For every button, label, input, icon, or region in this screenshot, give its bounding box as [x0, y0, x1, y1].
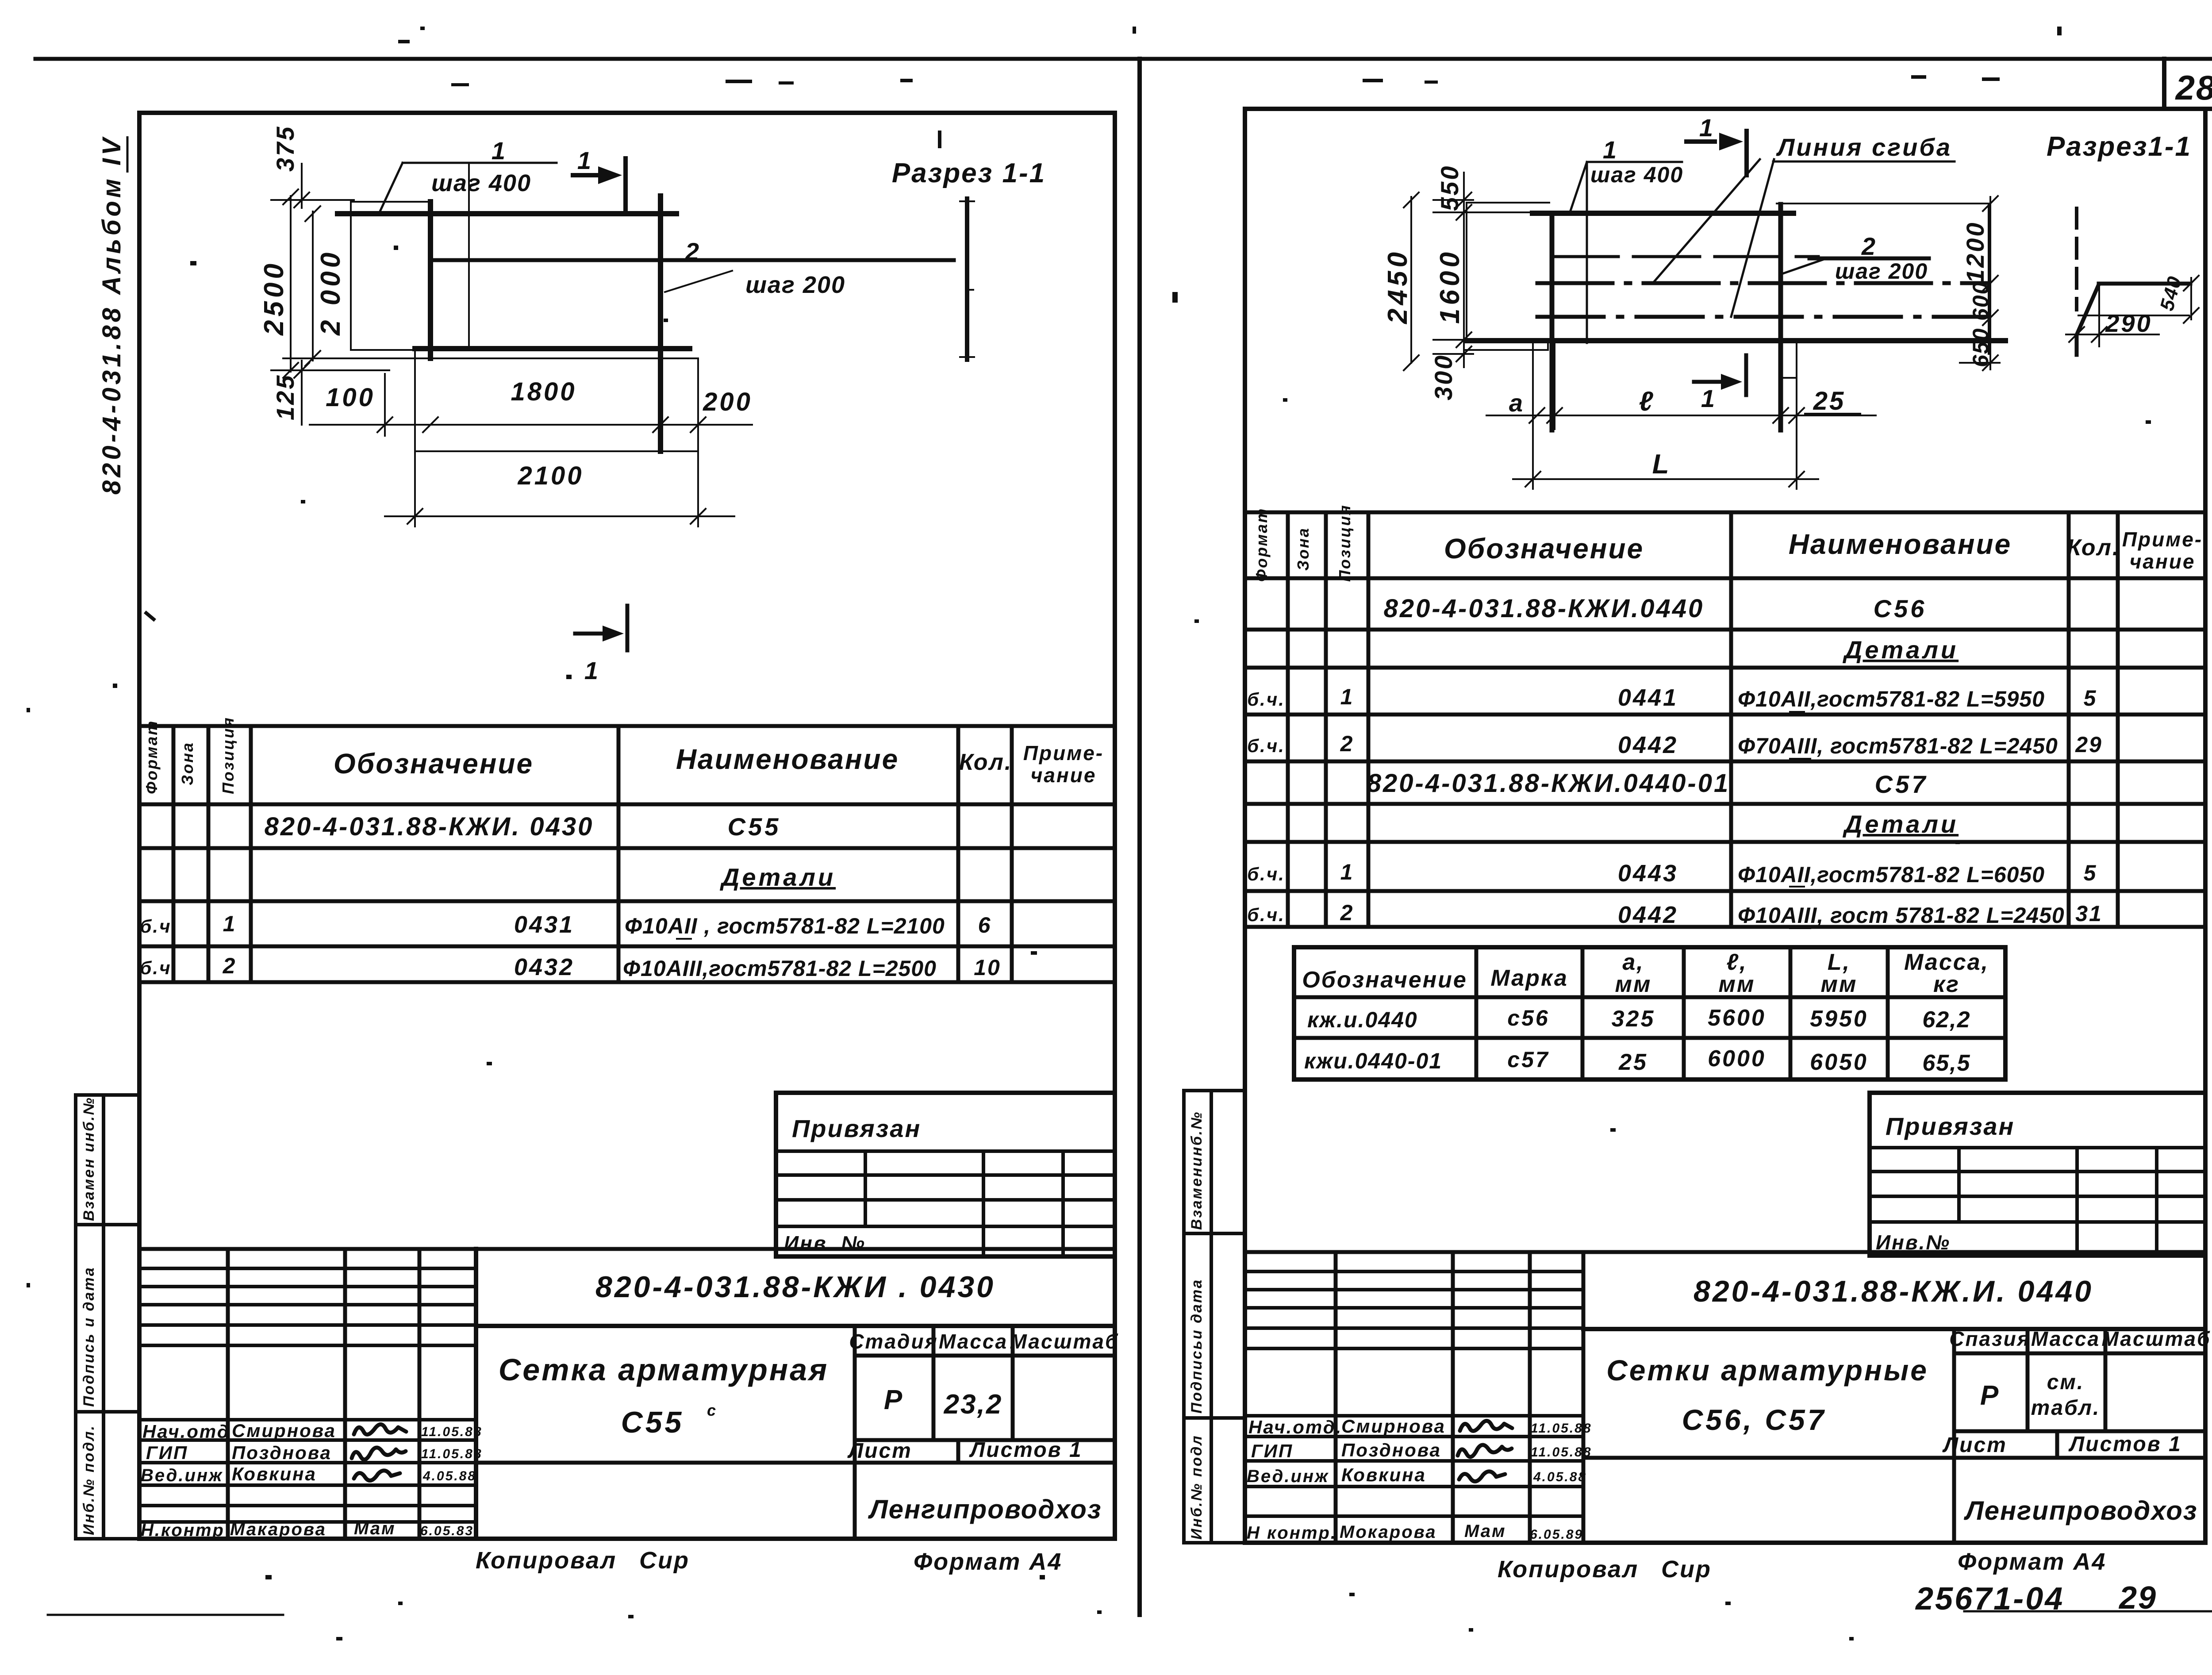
svg-text:0442: 0442 — [1618, 902, 1678, 928]
svg-text:Формат А4: Формат А4 — [1958, 1548, 2106, 1575]
svg-text:4.05.88: 4.05.88 — [422, 1469, 476, 1483]
dashed row line / fraction line of label 2 — [1552, 255, 1818, 258]
svg-text:1: 1 — [492, 137, 507, 165]
svg-text:2500: 2500 — [259, 260, 289, 336]
svg-text:290: 290 — [2105, 309, 2152, 337]
svg-text:с57: с57 — [1507, 1047, 1549, 1072]
svg-text:Мокарова: Мокарова — [1340, 1522, 1437, 1542]
svg-text:Привязан: Привязан — [792, 1114, 921, 1142]
svg-text:Ф10АII,гост5781-82 L=5950: Ф10АII,гост5781-82 L=5950 — [1738, 687, 2045, 711]
svg-text:шаг 400: шаг 400 — [431, 170, 531, 196]
right dim line 1200/600/650 — [1960, 197, 2000, 369]
svg-text:0441: 0441 — [1618, 684, 1678, 711]
svg-text:С57: С57 — [1875, 770, 1928, 798]
svg-text:820-4-031.88-КЖ.И. 0440: 820-4-031.88-КЖ.И. 0440 — [1694, 1275, 2093, 1308]
svg-text:Вед.инж: Вед.инж — [141, 1466, 223, 1485]
svg-text:С55: С55 — [621, 1406, 684, 1439]
svg-text:6.05.89: 6.05.89 — [1530, 1527, 1583, 1542]
LEFT SHEET frame — [139, 113, 1115, 1539]
svg-text:С55: С55 — [728, 813, 781, 841]
leader vertical for label 1 — [468, 163, 470, 349]
svg-text:820-4-031.88-КЖИ.0440: 820-4-031.88-КЖИ.0440 — [1384, 594, 1705, 623]
label 2 diagonal — [665, 271, 732, 292]
svg-text:11.05.88: 11.05.88 — [421, 1425, 483, 1439]
svg-text:Ф10АII , гост5781-82 L=2100: Ф10АII , гост5781-82 L=2100 — [625, 914, 945, 938]
svg-text:Взамен инб.№: Взамен инб.№ — [81, 1096, 97, 1221]
name/stadia dividers — [476, 1326, 1115, 1539]
svg-text:Смирнова: Смирнова — [1341, 1416, 1446, 1437]
svg-text:Детали: Детали — [1843, 810, 1959, 838]
svg-text:1200: 1200 — [1961, 221, 1989, 283]
svg-text:1600: 1600 — [1435, 249, 1465, 324]
svg-text:Приме-: Приме- — [2122, 528, 2203, 551]
svg-text:2: 2 — [1861, 232, 1877, 260]
svg-text:100: 100 — [326, 383, 375, 412]
svg-text:Подпись и дата: Подпись и дата — [81, 1266, 97, 1407]
svg-text:1: 1 — [1603, 136, 1618, 164]
bottom dim extension verticals — [385, 374, 698, 526]
svg-text:С56, С57: С56, С57 — [1682, 1403, 1827, 1436]
svg-text:Позднова: Позднова — [1341, 1440, 1441, 1460]
svg-text:Нач.отд.: Нач.отд. — [1248, 1417, 1342, 1437]
svg-text:б.ч.: б.ч. — [1247, 904, 1285, 925]
svg-text:1: 1 — [1699, 114, 1714, 142]
title block outer — [139, 1249, 1115, 1539]
svg-text:11.05.88: 11.05.88 — [1531, 1445, 1592, 1460]
svg-text:б.ч: б.ч — [140, 957, 171, 978]
spec table grid — [139, 726, 1115, 982]
dim line 2500 — [283, 189, 298, 378]
fold line leaders — [1653, 159, 1774, 317]
svg-text:4.05.88: 4.05.88 — [1533, 1470, 1587, 1484]
privyazan box — [776, 1093, 1115, 1256]
svg-text:б.ч.: б.ч. — [1247, 864, 1285, 884]
right sheet side label boxes — [1184, 1091, 1245, 1543]
svg-text:Обозначение: Обозначение — [334, 748, 534, 780]
svg-text:Ленгипроводхоз: Ленгипроводхоз — [1963, 1496, 2197, 1525]
svg-text:300: 300 — [1429, 354, 1457, 400]
svg-text:б.ч: б.ч — [140, 916, 171, 937]
svg-text:Копировал: Копировал — [1498, 1556, 1639, 1583]
svg-text:1800: 1800 — [511, 377, 576, 406]
label 1 (shag 400) leader and overline — [1570, 162, 1682, 343]
dim line 2100 — [385, 515, 734, 517]
mesh C55 outline upper-left (thin) — [351, 202, 430, 451]
svg-text:11.05.88: 11.05.88 — [421, 1447, 483, 1461]
svg-text:Лист: Лист — [847, 1439, 912, 1463]
svg-text:Ф10АIII,гост5781-82 L=2500: Ф10АIII,гост5781-82 L=2500 — [623, 956, 937, 981]
svg-text:Марка: Марка — [1490, 965, 1568, 991]
svg-text:Ленгипроводхоз: Ленгипроводхоз — [868, 1494, 1102, 1524]
svg-text:600: 600 — [1968, 281, 1993, 321]
svg-text:Позднова: Позднова — [232, 1442, 332, 1463]
svg-text:Сетки арматурные: Сетки арматурные — [1606, 1354, 1928, 1387]
svg-text:Позиция: Позиция — [1336, 504, 1354, 582]
svg-text:мм: мм — [1821, 972, 1858, 997]
svg-text:ГИП: ГИП — [1251, 1441, 1293, 1461]
svg-text:Р: Р — [1980, 1380, 2000, 1411]
svg-text:Смирнова: Смирнова — [232, 1420, 336, 1441]
svg-text:с56: с56 — [1507, 1006, 1549, 1030]
svg-text:1: 1 — [1701, 384, 1716, 412]
svg-text:0443: 0443 — [1618, 860, 1678, 887]
svg-text:1: 1 — [1340, 860, 1354, 884]
svg-text:ℓ: ℓ — [1639, 386, 1655, 417]
label 1 underline and diagonal — [379, 163, 557, 214]
svg-text:Линия сгиба: Линия сгиба — [1776, 133, 1952, 161]
svg-text:200: 200 — [703, 388, 753, 416]
svg-text:25671-04: 25671-04 — [1915, 1581, 2064, 1617]
svg-text:кж.и.0440: кж.и.0440 — [1307, 1007, 1418, 1032]
svg-text:125: 125 — [271, 374, 299, 420]
dim 25 underline — [1805, 413, 1860, 415]
svg-text:б.ч.: б.ч. — [1247, 689, 1285, 710]
svg-text:Лист: Лист — [1942, 1433, 2007, 1457]
section mark bottom (1) — [575, 606, 627, 650]
svg-text:ГИП: ГИП — [146, 1442, 188, 1463]
svg-text:Кол.: Кол. — [959, 749, 1013, 775]
svg-text:Формат: Формат — [1252, 507, 1271, 582]
bottom-left margin line — [48, 1614, 283, 1616]
bar pos2 last (thick vertical) — [1778, 204, 1783, 430]
right step outline — [1782, 339, 1797, 378]
svg-text:Детали: Детали — [1843, 636, 1959, 664]
roman numeral underlines — [676, 712, 1811, 981]
fold line 1 (dash-dot) — [1537, 281, 1989, 285]
svg-text:Спазия: Спазия — [1949, 1327, 2031, 1350]
svg-text:6: 6 — [978, 913, 992, 937]
svg-text:1: 1 — [223, 911, 237, 936]
svg-text:6.05.83: 6.05.83 — [420, 1524, 474, 1538]
mesh C56 outline upper-left segment (thin) — [1467, 203, 1549, 342]
svg-text:Зона: Зона — [178, 741, 196, 785]
razrez detail: bent bar — [2077, 284, 2190, 355]
dim line 2450 — [1404, 192, 1419, 370]
svg-text:650: 650 — [1968, 328, 1993, 367]
svg-text:0431: 0431 — [514, 911, 574, 938]
bar pos2 right (thick vertical) — [658, 196, 663, 451]
svg-text:Формат А4: Формат А4 — [914, 1548, 1062, 1575]
section line Razrez 1-1 (left sheet) — [965, 199, 969, 360]
svg-text:а: а — [1509, 389, 1524, 417]
svg-text:2450: 2450 — [1382, 249, 1413, 324]
svg-text:62,2: 62,2 — [1922, 1007, 1970, 1033]
svg-text:2100: 2100 — [517, 461, 584, 490]
svg-text:Детали: Детали — [720, 863, 836, 891]
page number 28 box — [2164, 59, 2212, 109]
svg-text:65,5: 65,5 — [1922, 1050, 1970, 1076]
svg-text:Формат: Формат — [142, 720, 161, 794]
svg-text:Инв. №: Инв. № — [784, 1232, 866, 1255]
svg-text:Сир: Сир — [1661, 1556, 1712, 1583]
bar pos1 bottom (thick horizontal) — [415, 346, 690, 351]
svg-text:Масса: Масса — [939, 1330, 1008, 1353]
svg-text:1: 1 — [577, 146, 592, 174]
svg-text:375: 375 — [271, 125, 299, 172]
svg-text:Инб.№ подл: Инб.№ подл — [1188, 1434, 1205, 1540]
svg-text:табл.: табл. — [2031, 1396, 2101, 1420]
svg-text:Масштаб: Масштаб — [2102, 1327, 2211, 1350]
svg-text:820-4-031.88-КЖИ . 0430: 820-4-031.88-КЖИ . 0430 — [595, 1270, 995, 1304]
dim line 375 stub — [294, 164, 309, 208]
svg-text:1: 1 — [1340, 684, 1354, 709]
svg-text:Ф10АII,гост5781-82 L=6050: Ф10АII,гост5781-82 L=6050 — [1738, 862, 2045, 887]
svg-text:Копировал: Копировал — [476, 1547, 617, 1574]
svg-text:шаг 400: шаг 400 — [1590, 162, 1683, 187]
left sheet side label boxes — [76, 1095, 139, 1539]
razrez detail: verticals and dims — [2066, 284, 2189, 346]
mesh C55 lower rectangle outline (thin) — [415, 358, 698, 451]
left step outline — [1464, 342, 1548, 350]
left sheet signatures — [354, 1424, 406, 1434]
svg-text:L: L — [1652, 449, 1671, 480]
razrez detail: dashed axis — [2075, 208, 2078, 310]
svg-text:Наименование: Наименование — [1789, 528, 2012, 560]
left dim extensions — [1433, 200, 1537, 354]
bar pos1 middle / label 2 leader line — [432, 258, 954, 262]
svg-text:820-4-031.88-КЖИ.0440-01: 820-4-031.88-КЖИ.0440-01 — [1367, 769, 1730, 798]
svg-text:Ф10АIII, гост 5781-82 L=2450: Ф10АIII, гост 5781-82 L=2450 — [1738, 903, 2065, 928]
dim line 550/1600/300 — [1456, 173, 1471, 367]
svg-text:Ковкина: Ковкина — [1341, 1464, 1426, 1485]
doc number box — [476, 1249, 1115, 1539]
svg-text:2: 2 — [1340, 731, 1354, 756]
bottom dim line a/l/25 — [1486, 415, 1876, 416]
svg-text:Вед.инж: Вед.инж — [1247, 1467, 1329, 1486]
dim extension lines left — [271, 200, 418, 370]
bar pos1 top (thick horizontal) — [338, 211, 676, 216]
svg-text:Обозначение: Обозначение — [1302, 967, 1467, 993]
IV underline in album text — [127, 136, 129, 173]
bar pos1 bottom (thick) — [1467, 338, 2005, 343]
svg-text:шаг 200: шаг 200 — [1835, 259, 1928, 284]
svg-text:29: 29 — [2118, 1580, 2157, 1616]
svg-text:Мам: Мам — [1464, 1521, 1506, 1541]
section mark bottom (1) — [1694, 355, 1746, 395]
svg-text:5950: 5950 — [1810, 1006, 1868, 1032]
svg-text:23,2: 23,2 — [944, 1389, 1003, 1420]
sheet separator vertical — [1137, 59, 1142, 1615]
svg-text:5: 5 — [2084, 686, 2097, 711]
svg-text:Р: Р — [884, 1385, 903, 1415]
signature table rows — [139, 1268, 476, 1522]
svg-text:Масса: Масса — [2031, 1327, 2100, 1350]
svg-text:820-4-031.88 Альбом IV: 820-4-031.88 Альбом IV — [97, 135, 126, 495]
svg-text:Стадия: Стадия — [849, 1330, 938, 1353]
svg-text:Взаменинб.№: Взаменинб.№ — [1188, 1111, 1205, 1230]
svg-text:б.ч.: б.ч. — [1247, 735, 1285, 756]
svg-text:кжи.0440-01: кжи.0440-01 — [1304, 1049, 1442, 1073]
svg-text:550: 550 — [1436, 165, 1463, 211]
bottom dim extensions — [1533, 341, 1797, 489]
svg-text:325: 325 — [1612, 1006, 1655, 1032]
liniya sgiba underline — [1773, 161, 1955, 163]
right sheet signatures — [1460, 1421, 1512, 1431]
svg-text:шаг 200: шаг 200 — [745, 272, 845, 298]
svg-text:Наименование: Наименование — [676, 743, 899, 775]
svg-text:5600: 5600 — [1708, 1005, 1766, 1031]
L dim line — [1513, 472, 1818, 487]
svg-text:31: 31 — [2075, 901, 2103, 926]
svg-text:см.: см. — [2047, 1371, 2085, 1394]
svg-text:Привязан: Привязан — [1886, 1112, 2015, 1140]
svg-text:Позиция: Позиция — [219, 716, 237, 794]
svg-text:Приме-: Приме- — [1023, 741, 1104, 765]
svg-text:2: 2 — [223, 953, 237, 978]
svg-text:11.05.88: 11.05.88 — [1531, 1421, 1592, 1436]
svg-text:чание: чание — [1031, 764, 1097, 787]
svg-text:29: 29 — [2075, 732, 2103, 757]
bar pos1 top (thick) — [1532, 211, 1793, 216]
svg-text:5: 5 — [2084, 861, 2097, 885]
fold line 2 (dash-dot) — [1537, 315, 1989, 319]
svg-text:с: с — [707, 1401, 717, 1419]
top rule across both sheets — [35, 57, 2212, 61]
section mark top (1) — [573, 158, 626, 209]
svg-text:28: 28 — [2175, 68, 2212, 107]
svg-text:Масштаб: Масштаб — [1010, 1330, 1119, 1353]
svg-text:Подписьи дата: Подписьи дата — [1188, 1279, 1205, 1414]
svg-text:Инб.№ подл.: Инб.№ подл. — [81, 1425, 97, 1535]
svg-text:820-4-031.88-КЖИ. 0430: 820-4-031.88-КЖИ. 0430 — [265, 812, 594, 841]
dim line 2000 — [305, 206, 320, 366]
RIGHT SHEET frame — [1245, 109, 2205, 1543]
svg-text:Разрез 1-1: Разрез 1-1 — [892, 158, 1046, 188]
svg-text:25: 25 — [1813, 387, 1846, 415]
svg-text:Обозначение: Обозначение — [1444, 533, 1644, 565]
label 2 (shag 200) leader diagonal — [1781, 260, 1823, 274]
svg-text:мм: мм — [1719, 972, 1755, 997]
svg-text:1: 1 — [584, 657, 599, 684]
svg-text:Ф70АIII, гост5781-82 L=2450: Ф70АIII, гост5781-82 L=2450 — [1738, 734, 2058, 758]
bar pos2 left (thick vertical) — [428, 202, 433, 358]
svg-text:Сир: Сир — [639, 1547, 690, 1574]
signature table verticals — [228, 1249, 476, 1539]
svg-text:Разрез1-1: Разрез1-1 — [2047, 131, 2192, 162]
svg-text:мм: мм — [1615, 972, 1652, 997]
section mark top (1) — [1686, 131, 1747, 175]
svg-text:2 000: 2 000 — [315, 249, 346, 336]
svg-text:540: 540 — [2156, 273, 2186, 313]
bar pos2 first (thick vertical) — [1550, 213, 1555, 430]
svg-text:Зона: Зона — [1294, 527, 1312, 571]
bottom-right margin line — [1964, 1610, 2212, 1613]
svg-text:Инв.№: Инв.№ — [1876, 1231, 1951, 1254]
svg-text:Кол.: Кол. — [2067, 535, 2120, 561]
svg-text:6000: 6000 — [1708, 1046, 1766, 1072]
svg-text:Ковкина: Ковкина — [232, 1464, 317, 1484]
svg-text:С56: С56 — [1874, 595, 1927, 622]
svg-text:чание: чание — [2130, 550, 2196, 573]
svg-text:0432: 0432 — [514, 954, 574, 980]
svg-text:Сетка арматурная: Сетка арматурная — [499, 1352, 829, 1387]
svg-text:0442: 0442 — [1618, 732, 1678, 758]
mesh outline top right segment (thin) — [1777, 204, 1989, 354]
svg-text:2: 2 — [1340, 900, 1354, 925]
svg-text:25: 25 — [1618, 1049, 1648, 1075]
dim line 125 stub — [294, 361, 309, 425]
bottom dim line 100/1800/200 — [310, 424, 752, 426]
svg-text:Листов 1: Листов 1 — [2068, 1433, 2181, 1456]
svg-text:10: 10 — [974, 955, 1001, 980]
svg-text:кг: кг — [1933, 972, 1960, 997]
svg-text:6050: 6050 — [1810, 1049, 1868, 1075]
svg-text:Н контр.: Н контр. — [1247, 1523, 1337, 1543]
